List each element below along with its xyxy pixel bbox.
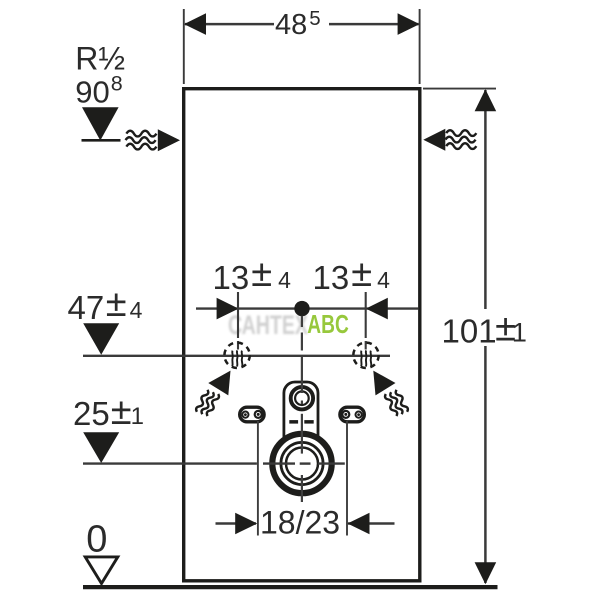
level 25 crosshair segments over drain [263,462,345,464]
svg-text:0: 0 [86,519,107,561]
center dot on dim line [294,301,309,316]
left fixing pill [240,407,264,422]
right wall water inlet: arrow [423,129,445,151]
right wall water inlet: wavy lines [446,130,477,149]
width dimension line [185,23,274,26]
svg-text:18/23: 18/23 [260,505,340,541]
level 47 line [83,355,390,357]
capsule dash marks [289,420,298,424]
level 0 open triangle [85,557,118,584]
13 dim arrow left [217,298,239,320]
width dimension 48(5): extension line left [183,9,185,84]
left diagonal wavy lines [196,390,219,416]
left wall water inlet: arrow [158,129,180,151]
left diagonal water arrow [208,371,230,396]
right fixing pill [340,407,364,422]
svg-text:101±1: 101±1 [442,308,527,350]
level 25 triangle [83,432,119,463]
18/23 dimension [216,522,257,524]
width dim arrow left [184,13,206,35]
height dim arrow bottom [475,562,497,584]
height dimension line [484,90,487,309]
module outline rectangle [184,89,420,581]
left wall water inlet: wavy lines [126,131,157,150]
pill extension line left [257,421,259,536]
left circle squiggles [232,350,242,366]
capsule inlet rings [291,387,313,409]
svg-text:САНТЕХ: САНТЕХ [228,310,308,340]
right diagonal wavy lines [385,390,408,416]
svg-text:ABC: ABC [307,309,349,339]
left dashed circle (water connection) [224,343,249,368]
right circle squiggles [361,350,371,366]
18/23 arrow right [348,513,370,535]
18/23 arrow left [235,513,257,535]
13 extension line left [237,292,239,350]
right dashed circle (water connection) [353,343,378,368]
width dim arrow right [398,13,420,35]
height dim arrow top [475,89,497,111]
vertical centerline (dash-dot) [301,316,303,502]
level 25 line (dash-dot through drain center) [83,462,257,464]
13 dim arrow right [366,298,388,320]
width dimension 48(5): extension line right [419,9,421,84]
drain outlet concentric circles [272,434,331,493]
pill extension line right [346,421,348,536]
level 47 triangle [83,323,119,355]
13 dimension line [196,307,419,309]
water supply triangle symbol [82,107,119,140]
right diagonal water arrow [373,371,395,396]
13 extension line right [365,292,367,350]
flush bend capsule [284,382,318,455]
floor baseline [83,585,498,589]
height dimension 101+-1: extension line from top right corner [423,88,496,90]
